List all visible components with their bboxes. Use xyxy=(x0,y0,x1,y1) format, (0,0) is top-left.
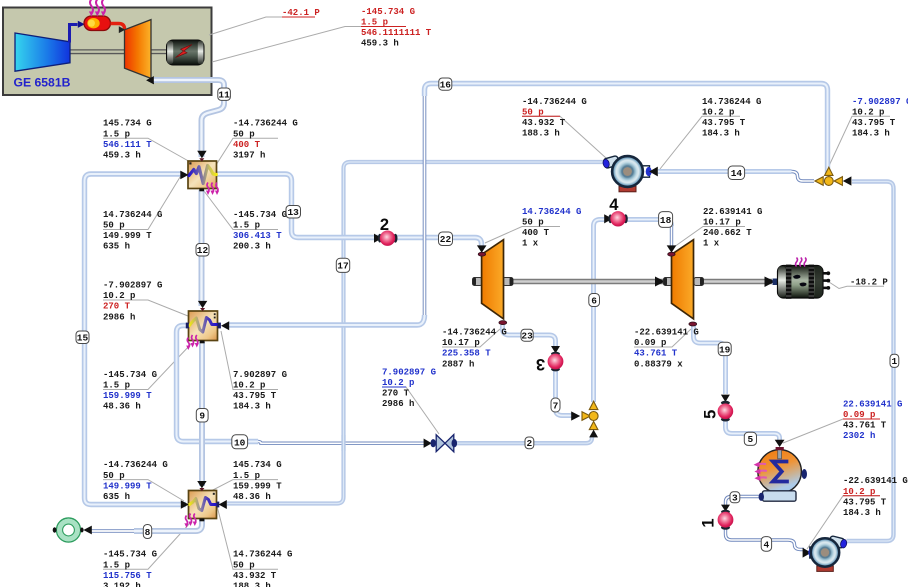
GT combustor flames xyxy=(89,0,106,17)
wire stream 1 pump2 discharge riser to splitter xyxy=(847,182,894,542)
svg-text:149.999 T: 149.999 T xyxy=(103,231,152,241)
wire stream 3 condenser to node1 xyxy=(726,497,760,506)
pump P2 (condensate pump) xyxy=(803,536,848,572)
svg-text:0.09 p: 0.09 p xyxy=(634,338,666,348)
svg-text:43.932 T: 43.932 T xyxy=(233,571,277,581)
node HX2 inlet data xyxy=(103,281,162,323)
node label stream 16 xyxy=(439,78,452,90)
node label stream 17 xyxy=(336,258,349,272)
wire stream 18 node4 to turbine2 xyxy=(625,220,672,227)
svg-text:50 p: 50 p xyxy=(233,129,255,139)
leader GT exhaust data xyxy=(212,27,361,63)
wire stream 9 HX2 to HX3 xyxy=(199,342,205,486)
HX2 left port xyxy=(186,323,189,329)
leader turbine2 outlet xyxy=(634,329,691,347)
wire stream 19 turbine2 exhaust to node5 xyxy=(694,326,726,394)
shaft stub left of turbine2 xyxy=(664,278,673,286)
valve V2 (mixing valve, bottom middle) xyxy=(571,401,598,437)
leader HX3 heat xyxy=(103,523,190,569)
svg-text:2: 2 xyxy=(527,438,533,449)
svg-text:1: 1 xyxy=(700,518,718,527)
svg-text:1.5 p: 1.5 p xyxy=(103,560,130,570)
svg-text:48.36 h: 48.36 h xyxy=(103,402,141,412)
HX2 top inlet arrow xyxy=(198,301,207,308)
svg-text:1 x: 1 x xyxy=(703,239,720,249)
node label stream 6 xyxy=(589,294,600,307)
svg-text:2986 h: 2986 h xyxy=(103,312,135,322)
svg-text:12: 12 xyxy=(197,245,209,256)
svg-text:GE 6581B: GE 6581B xyxy=(14,76,71,90)
node label stream 22 xyxy=(439,232,453,246)
leader HX1 steam in xyxy=(204,191,278,230)
svg-text:546.111 T: 546.111 T xyxy=(103,140,152,150)
leader HX3 gas in xyxy=(103,480,184,501)
svg-text:-7.902897 G: -7.902897 G xyxy=(852,97,908,107)
svg-text:14: 14 xyxy=(731,168,743,179)
HX3 bottom port xyxy=(200,519,205,522)
wire stream 12 HX1 to HX2 xyxy=(199,190,205,306)
node GT exhaust data xyxy=(361,7,432,49)
node HX2 water inlet data xyxy=(233,370,287,412)
node splitter data xyxy=(852,97,908,139)
leader HX1 gas out xyxy=(103,176,181,230)
node label stream 8 xyxy=(143,525,151,539)
shaft stub left of turbine1 xyxy=(473,278,483,286)
node condenser inlet data xyxy=(843,399,902,441)
wire stream 8 HX3 to stack xyxy=(134,519,202,531)
GT generator lightning bolt xyxy=(176,45,193,58)
svg-text:225.358 T: 225.358 T xyxy=(442,349,491,359)
HX3 heat arrows xyxy=(184,514,197,528)
svg-text:10.2 p: 10.2 p xyxy=(852,107,884,117)
svg-text:-18.2 P: -18.2 P xyxy=(850,278,888,288)
leader HX1 steam out xyxy=(216,138,278,165)
node label stream 23 xyxy=(521,329,533,341)
GT generator xyxy=(167,40,205,65)
node pump1 suction data xyxy=(522,97,587,139)
leader pump1 inlet xyxy=(660,116,740,169)
wire stream 4 node1 to pump2 xyxy=(726,528,805,550)
shaft turbine1-turbine2 xyxy=(503,279,666,285)
leader splitter valve xyxy=(828,116,890,168)
svg-text:10.17 p: 10.17 p xyxy=(703,218,741,228)
leader pump1 outlet xyxy=(522,116,606,158)
svg-text:43.795 T: 43.795 T xyxy=(702,118,746,128)
svg-text:-145.734 G: -145.734 G xyxy=(103,370,157,380)
wire stream 11 GT exhaust to HX1 xyxy=(152,80,224,157)
leader turbine1 outlet xyxy=(442,329,500,347)
leader turbine2 inlet xyxy=(674,227,745,248)
wire stream 16 into HX2 xyxy=(229,315,425,325)
svg-text:115.756 T: 115.756 T xyxy=(103,571,152,581)
GT shaft turbine-generator xyxy=(151,49,167,54)
svg-text:-22.639141 G: -22.639141 G xyxy=(634,328,699,338)
node label stream 13 xyxy=(286,206,301,219)
wire stream 14 splitter to pump1 xyxy=(658,169,792,174)
shaft arrow into generator xyxy=(765,277,776,288)
node HX3 water outlet data xyxy=(233,460,282,502)
wire stream 15 riser to HX1 feed xyxy=(85,174,187,505)
node label stream 19 xyxy=(718,342,731,355)
wire stream 17 crossing overlay xyxy=(341,435,345,451)
leader HX2 heat xyxy=(103,344,191,390)
svg-text:43.795 T: 43.795 T xyxy=(843,497,887,507)
node HX3 stack data xyxy=(103,550,157,587)
HX1 heat arrows xyxy=(206,183,219,196)
gas turbine package GE 6581B xyxy=(3,0,212,95)
GT turbine xyxy=(125,20,152,79)
svg-text:-14.736244 G: -14.736244 G xyxy=(233,119,298,129)
leader HX3 gas out xyxy=(217,506,278,569)
shaft stub right of turbine2 xyxy=(694,278,704,286)
generator terminal pins xyxy=(823,271,830,289)
svg-text:635 h: 635 h xyxy=(103,492,130,502)
shaft turbine2-generator xyxy=(694,279,772,285)
condenser heat rejection arrows xyxy=(754,462,767,481)
node HX3 gas inlet data xyxy=(103,460,168,502)
node turbine1 inlet data xyxy=(522,207,581,249)
svg-text:240.662 T: 240.662 T xyxy=(703,228,752,238)
wire stream 16 splitter up and across xyxy=(425,84,828,177)
HX1 left inlet arrow xyxy=(180,171,188,180)
GT fuel/air duct to combustor xyxy=(70,25,78,43)
node HX2 gas data xyxy=(103,370,157,412)
svg-text:7.902897 G: 7.902897 G xyxy=(233,370,287,380)
GT combustor xyxy=(84,16,111,31)
svg-text:2: 2 xyxy=(380,216,389,234)
svg-text:184.3 h: 184.3 h xyxy=(852,129,890,139)
node label stream 4 xyxy=(761,537,771,552)
svg-text:159.999 T: 159.999 T xyxy=(103,391,152,401)
leader HX2 water in xyxy=(221,331,278,390)
pump P1 (boiler feed pump) xyxy=(602,155,658,191)
GT hot gas duct xyxy=(111,24,125,30)
svg-text:306.413 T: 306.413 T xyxy=(233,231,282,241)
HX1 top inlet arrow xyxy=(197,151,206,159)
heat exchanger HX2 (evaporator) xyxy=(186,301,229,350)
wire stream 10 thin run to check valve xyxy=(258,442,424,444)
node turbine2 outlet data xyxy=(634,328,699,370)
svg-text:459.3 h: 459.3 h xyxy=(361,39,399,49)
leader turbine1 inlet xyxy=(485,227,560,244)
svg-text:9: 9 xyxy=(199,411,205,422)
node HX3 water inlet data xyxy=(233,550,292,587)
svg-text:-14.736244 G: -14.736244 G xyxy=(103,460,168,470)
svg-text:10: 10 xyxy=(234,437,246,448)
leader condenser inlet xyxy=(783,419,880,443)
wire stream 2 check valve to mixing valve xyxy=(454,436,593,443)
node pump2 data xyxy=(843,476,908,518)
wire stream 18 drop into turbine2 xyxy=(670,226,673,246)
svg-text:2986 h: 2986 h xyxy=(382,399,414,409)
HX2 bottom port xyxy=(200,341,205,344)
svg-text:18: 18 xyxy=(660,215,672,226)
heat exchanger HX1 (superheater) xyxy=(180,151,219,195)
node label stream 3 xyxy=(730,492,740,504)
wire stream 8 thin end at stack xyxy=(92,529,135,533)
svg-text:149.999 T: 149.999 T xyxy=(103,481,152,491)
svg-text:10.2 p: 10.2 p xyxy=(103,291,135,301)
leader pump2 xyxy=(807,496,880,549)
svg-text:22: 22 xyxy=(440,234,452,245)
leader HX3 water out top xyxy=(211,480,278,491)
svg-text:23: 23 xyxy=(521,330,533,341)
svg-text:159.999 T: 159.999 T xyxy=(233,481,282,491)
svg-text:400 T: 400 T xyxy=(522,228,550,238)
svg-text:2887 h: 2887 h xyxy=(442,359,474,369)
svg-text:-145.734 G: -145.734 G xyxy=(103,550,157,560)
node HX1 steam inlet data xyxy=(233,210,287,252)
svg-text:1.5 p: 1.5 p xyxy=(103,129,130,139)
node HX1 steam outlet data xyxy=(233,119,298,161)
node turbine2 inlet data xyxy=(703,207,762,249)
svg-text:8: 8 xyxy=(145,527,151,538)
GT exhaust arrow xyxy=(146,76,154,84)
svg-text:-14.736244 G: -14.736244 G xyxy=(442,328,507,338)
svg-text:14.736244 G: 14.736244 G xyxy=(522,207,581,217)
node label stream 18 xyxy=(659,212,673,228)
node check valve data xyxy=(382,368,436,410)
shaft stub right of turbine1 xyxy=(503,278,513,286)
svg-text:1.5 p: 1.5 p xyxy=(103,381,130,391)
condenser / deaerator vessel xyxy=(754,440,807,501)
svg-text:5: 5 xyxy=(748,434,754,445)
GT exhaust arrow overlay xyxy=(146,76,154,84)
generator shaft coupling xyxy=(773,279,779,286)
svg-text:145.734 G: 145.734 G xyxy=(103,119,152,129)
stack sink (green circle) xyxy=(53,518,92,542)
wire stream 10 HX2 outlet down and across xyxy=(177,326,259,442)
wire stream 13 / 22 HX1 to turbine1 xyxy=(217,174,482,247)
svg-text:-14.736244 G: -14.736244 G xyxy=(522,97,587,107)
node 2 (pink sphere) xyxy=(374,216,398,246)
svg-text:22.639141 G: 22.639141 G xyxy=(703,207,762,217)
node label stream 1 xyxy=(890,354,899,367)
turbine T2 (LP steam turbine) xyxy=(667,240,697,326)
svg-text:14.736244 G: 14.736244 G xyxy=(103,210,162,220)
svg-text:7: 7 xyxy=(553,401,559,412)
HX3 right port and arrow xyxy=(217,502,220,508)
svg-text:4: 4 xyxy=(764,539,770,550)
svg-text:15: 15 xyxy=(77,333,89,344)
svg-text:184.3 h: 184.3 h xyxy=(843,508,881,518)
svg-text:200.3 h: 200.3 h xyxy=(233,242,271,252)
node label stream 9 xyxy=(196,409,208,423)
shaft arrow into turbine2 xyxy=(655,277,665,287)
svg-text:19: 19 xyxy=(719,344,731,355)
svg-text:-145.734 G: -145.734 G xyxy=(233,210,287,220)
wire stream 16 drop xyxy=(423,96,427,317)
svg-text:43.795 T: 43.795 T xyxy=(852,118,896,128)
check valve CV1 xyxy=(424,435,458,452)
node label stream 10 xyxy=(232,435,248,449)
svg-text:184.3 h: 184.3 h xyxy=(702,129,740,139)
node label stream 5 xyxy=(744,432,756,445)
node label stream 12 xyxy=(196,244,209,257)
node label stream 14 xyxy=(728,166,744,180)
svg-text:1.5 p: 1.5 p xyxy=(233,471,260,481)
svg-text:184.3 h: 184.3 h xyxy=(233,402,271,412)
HX3 left inlet arrow xyxy=(181,500,189,508)
svg-text:50 p: 50 p xyxy=(103,471,125,481)
svg-text:14.736244 G: 14.736244 G xyxy=(702,97,761,107)
HX1 bottom port xyxy=(199,189,204,192)
svg-text:43.761 T: 43.761 T xyxy=(634,349,678,359)
svg-text:50 p: 50 p xyxy=(233,560,255,570)
svg-text:17: 17 xyxy=(337,261,349,272)
HX2 right port and arrow xyxy=(218,323,221,329)
svg-text:459.3 h: 459.3 h xyxy=(103,150,141,160)
svg-text:1.5 p: 1.5 p xyxy=(233,221,260,231)
node 1 (pink sphere) xyxy=(700,505,734,530)
svg-text:145.734 G: 145.734 G xyxy=(233,460,282,470)
generator G1 (steam turbine generator) xyxy=(778,258,831,299)
svg-text:188.3 h: 188.3 h xyxy=(233,581,271,587)
node 4 (pink sphere) xyxy=(604,196,628,227)
node HX1 gas inlet data xyxy=(103,119,152,161)
leader GT generator power xyxy=(209,17,282,35)
svg-text:400 T: 400 T xyxy=(233,140,261,150)
leader generator output xyxy=(829,282,884,289)
svg-text:16: 16 xyxy=(440,79,452,90)
GT compressor xyxy=(15,33,70,71)
svg-text:270 T: 270 T xyxy=(103,302,131,312)
node 3 (pink sphere) xyxy=(536,346,563,373)
node HX1 gas outlet data xyxy=(103,210,162,252)
leader HX1 gas in xyxy=(103,138,192,163)
svg-text:635 h: 635 h xyxy=(103,242,130,252)
wire stream 23 turbine1 exhaust to node3 xyxy=(503,325,556,347)
HX2 heat arrows xyxy=(186,335,199,350)
svg-text:7.902897 G: 7.902897 G xyxy=(382,368,436,378)
svg-text:4: 4 xyxy=(609,196,619,214)
svg-text:10.17 p: 10.17 p xyxy=(442,338,480,348)
svg-text:-145.734 G: -145.734 G xyxy=(361,7,415,17)
svg-text:10.2 p: 10.2 p xyxy=(702,107,734,117)
svg-text:5: 5 xyxy=(702,410,720,419)
svg-text:270 T: 270 T xyxy=(382,389,410,399)
node label stream 15 xyxy=(76,331,89,344)
wire stream 6 mixing valve to node4 xyxy=(594,220,606,403)
svg-text:11: 11 xyxy=(218,89,230,100)
leader check valve xyxy=(382,387,439,434)
svg-text:-7.902897 G: -7.902897 G xyxy=(103,281,162,291)
node pump1 inlet data xyxy=(702,97,761,139)
svg-text:48.36 h: 48.36 h xyxy=(233,492,271,502)
svg-text:43.932 T: 43.932 T xyxy=(522,118,566,128)
wire stream 7 node3 to mixing valve xyxy=(556,369,573,416)
svg-text:14.736244 G: 14.736244 G xyxy=(233,550,292,560)
node turbine1 outlet data xyxy=(442,328,507,370)
svg-text:-42.1 P: -42.1 P xyxy=(282,8,320,18)
svg-text:188.3 h: 188.3 h xyxy=(522,129,560,139)
svg-text:6: 6 xyxy=(591,295,597,306)
svg-text:43.795 T: 43.795 T xyxy=(233,391,277,401)
svg-text:3.192 h: 3.192 h xyxy=(103,581,141,587)
svg-text:3: 3 xyxy=(536,355,545,373)
svg-text:-22.639141 G: -22.639141 G xyxy=(843,476,908,486)
turbine T1 (HP steam turbine) xyxy=(477,240,507,325)
svg-text:2302 h: 2302 h xyxy=(843,431,875,441)
svg-text:1: 1 xyxy=(892,356,898,367)
svg-text:1 x: 1 x xyxy=(522,239,539,249)
svg-text:3197 h: 3197 h xyxy=(233,150,265,160)
wire stream 17 pump1 discharge to HX3 xyxy=(227,162,605,504)
leader HX2 steam in top xyxy=(103,300,188,316)
wire stream 5 node5 to condenser xyxy=(726,419,780,441)
wire splitter left jog xyxy=(792,172,815,182)
node label stream 11 xyxy=(218,88,231,100)
svg-text:50 p: 50 p xyxy=(522,218,544,228)
node label stream 7 xyxy=(551,398,560,412)
generator heat wisps xyxy=(796,258,807,267)
svg-text:22.639141 G: 22.639141 G xyxy=(843,399,902,409)
svg-text:50 p: 50 p xyxy=(103,221,125,231)
node label stream 2 xyxy=(525,437,534,449)
valve V1 (flow splitter, top right) xyxy=(815,167,852,185)
svg-text:43.761 T: 43.761 T xyxy=(843,421,887,431)
GT shaft compressor-turbine xyxy=(70,49,125,54)
svg-text:13: 13 xyxy=(287,207,299,218)
svg-text:10.2 p: 10.2 p xyxy=(233,381,265,391)
svg-text:3: 3 xyxy=(732,492,738,503)
heat exchanger HX3 (economizer) xyxy=(181,481,227,528)
HX3 top inlet arrow xyxy=(197,481,206,488)
svg-text:0.88379 x: 0.88379 x xyxy=(634,359,683,369)
node 5 (pink sphere) xyxy=(702,395,734,422)
svg-text:546.1111111 T: 546.1111111 T xyxy=(361,28,432,38)
